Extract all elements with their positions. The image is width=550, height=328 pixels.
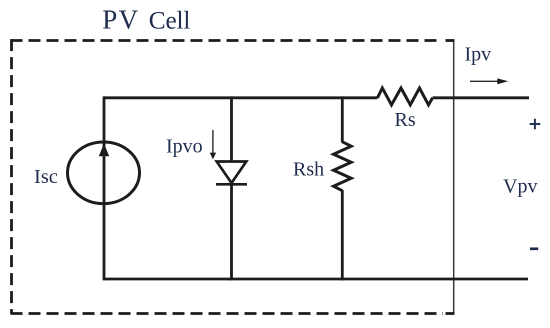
current source Isc (circle with up arrow) — [68, 142, 140, 204]
wire: Rsh branch lower — [341, 190, 344, 280]
svg-text:Rsh: Rsh — [293, 159, 324, 181]
resistor Rs (horizontal zigzag on top rail) — [378, 88, 433, 105]
wire: Rsh branch upper — [341, 96, 344, 142]
current source arrowhead (points up) — [99, 144, 109, 157]
terminal + (positive) — [530, 119, 541, 130]
wire: bottom rail — [104, 278, 528, 281]
wire: diode branch upper — [230, 96, 233, 161]
terminal - (negative) — [530, 247, 538, 250]
wire: top rail right section (Rs to + terminal) — [433, 96, 529, 99]
diode D (anode top, cathode bar bottom) — [216, 162, 247, 185]
PV Cell boundary dashed box (top, left, bottom edges) — [11, 39, 444, 313]
current arrow Ipv (points right) — [470, 78, 508, 84]
resistor Rsh (vertical zigzag) — [334, 142, 352, 191]
svg-text:Cell: Cell — [149, 7, 191, 35]
svg-text:Ipv: Ipv — [465, 44, 492, 66]
svg-text:Rs: Rs — [395, 109, 416, 131]
wire: diode branch lower — [230, 184, 233, 280]
current arrow Ipvo (small down arrow) — [210, 130, 216, 159]
PV Cell boundary right edge (thin solid line with corner stubs) — [446, 40, 455, 314]
wire: left branch vertical (through current source) — [103, 96, 106, 280]
svg-text:PV: PV — [102, 5, 139, 35]
svg-text:Vpv: Vpv — [503, 176, 537, 198]
svg-text:Isc: Isc — [34, 166, 58, 188]
svg-text:Ipvo: Ipvo — [166, 135, 203, 157]
wire: top rail left section (left branch to Rs) — [104, 96, 378, 99]
